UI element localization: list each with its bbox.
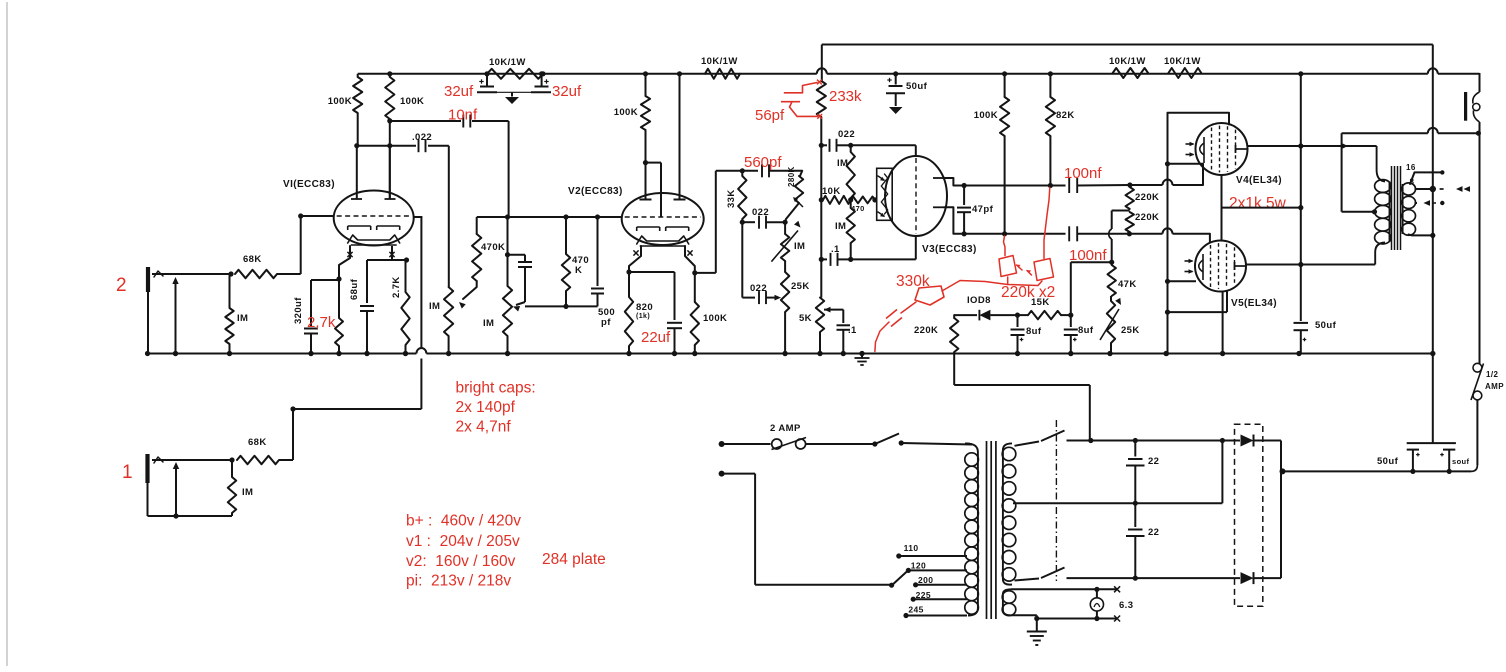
svg-text:5K: 5K <box>799 313 812 324</box>
capacitor .022 (treble-mid) <box>742 207 787 229</box>
V4 grid loop <box>1168 113 1230 164</box>
wire bright-cap node <box>525 304 598 309</box>
resistor 100K (V3 plate) <box>974 71 1010 236</box>
resistor 1M (ch2 input) <box>225 274 248 356</box>
svg-text:560pf: 560pf <box>744 154 782 171</box>
resistor 470K (2nd) <box>562 217 589 306</box>
capacitor 320uf (cathode) <box>293 280 339 356</box>
label 2 (red) <box>116 275 127 296</box>
resistor 100K (V1 plate b) <box>385 71 424 199</box>
speaker jack <box>1466 73 1480 364</box>
wire cathode column <box>1164 164 1170 356</box>
V5 plate line <box>1246 262 1375 267</box>
resistor 820 (1k) cathode <box>625 272 653 356</box>
ground at 32uf <box>497 92 531 104</box>
svg-text:33K: 33K <box>726 189 737 208</box>
svg-text:68K: 68K <box>243 254 262 265</box>
V1 plate pin b <box>385 146 396 199</box>
OT bottom tap <box>1409 233 1436 238</box>
tube V1 ECC83 <box>283 179 414 246</box>
svg-text:022: 022 <box>838 129 855 140</box>
capacitor 47pf <box>957 183 994 237</box>
svg-text:8uf: 8uf <box>1078 325 1094 336</box>
svg-text:.1: .1 <box>831 244 840 255</box>
wire to V3 grid <box>851 145 916 157</box>
svg-text:2: 2 <box>116 275 127 296</box>
svg-text:56pf: 56pf <box>755 107 785 124</box>
V2 plate pin b (to B+) <box>674 71 686 199</box>
svg-text:22: 22 <box>1148 527 1159 538</box>
svg-text:820: 820 <box>636 302 653 313</box>
B+ bus (upper rail) <box>358 68 1480 74</box>
label 2x1k 5w (red) <box>1229 195 1287 212</box>
V3 plate pin lower <box>933 207 964 234</box>
wire 68K to V1 grid <box>277 213 334 274</box>
svg-text:2x 4,7nf: 2x 4,7nf <box>456 419 512 436</box>
OT center tap <box>1342 133 1378 214</box>
OT secondary <box>1402 183 1416 235</box>
svg-text:.1: .1 <box>848 325 857 336</box>
input jack 1 <box>148 454 233 516</box>
capacitor 50uf+50uf HT <box>1377 443 1470 474</box>
capacitor 100nf lower <box>1069 226 1110 241</box>
resistor 470 (PI) <box>851 197 878 214</box>
diode 1008 <box>954 295 1017 320</box>
HT lead upper + switch <box>1015 431 1241 446</box>
wire fuse to caps <box>1471 400 1477 472</box>
capacitor 56pf mod (red sketch) <box>781 80 822 119</box>
svg-text:50uf: 50uf <box>906 81 928 92</box>
jack 2 ground arrow <box>172 277 178 356</box>
svg-text:022: 022 <box>750 283 767 294</box>
wire V3 cathode <box>851 236 916 259</box>
resistor 82K (V3 plate) <box>1046 71 1075 185</box>
svg-text:220K: 220K <box>914 325 938 336</box>
label 10nf (red) <box>448 107 478 124</box>
resistor 68K (ch2 grid stopper) <box>235 254 277 278</box>
label 32uf right (red) <box>552 83 582 100</box>
capacitor 22 (upper) <box>1126 441 1159 504</box>
6.3 lead upper <box>1011 586 1120 592</box>
V2 grid b feed <box>646 163 662 217</box>
scan edge artifact <box>6 2 8 666</box>
PT HT winding <box>1002 443 1016 584</box>
sketch wire 330k to cap (red) <box>901 302 916 313</box>
svg-text:470: 470 <box>851 204 865 213</box>
6.3 lead lower <box>1011 600 1133 622</box>
resistor 220K (V4 grid) <box>1126 185 1160 209</box>
resistor 100K (V1 plate a) <box>328 74 363 146</box>
svg-text:200: 200 <box>918 575 933 585</box>
resistor 1M (2nd) <box>483 217 512 356</box>
resistor 5K pot <box>799 298 824 357</box>
svg-text:10K/1W: 10K/1W <box>701 56 738 67</box>
svg-text:IOD8: IOD8 <box>967 295 991 306</box>
svg-text:2,7k: 2,7k <box>307 314 336 331</box>
wire 5K wiper <box>824 307 843 323</box>
svg-text:220K: 220K <box>1135 192 1159 203</box>
resistor 10K/1W (screen a) <box>1109 56 1148 78</box>
resistor 25K pot (bass) <box>781 261 810 356</box>
note bright caps (red) <box>456 380 536 436</box>
wire rectifier out <box>1280 441 1286 579</box>
svg-text:47pf: 47pf <box>972 204 994 215</box>
capacitor 500pf <box>591 217 615 328</box>
capacitor 22uf <box>629 272 682 356</box>
sketch 330k pot (red) <box>896 273 944 305</box>
svg-text:50uf: 50uf <box>1377 456 1399 467</box>
ground bus (lower rail) <box>148 348 1433 354</box>
V2 cathode lead a <box>626 246 641 275</box>
V2 cathode lead b <box>685 246 697 276</box>
resistor 220K (V5 grid) <box>1126 212 1160 234</box>
wire 68K ch1 to V1 grid2 <box>279 217 422 460</box>
svg-text:25K: 25K <box>1121 325 1140 336</box>
capacitor .1 (5K) <box>837 325 858 356</box>
svg-text:100K: 100K <box>400 96 424 107</box>
V3 plate pin upper <box>933 178 964 186</box>
resistor 47K <box>1108 262 1137 296</box>
wire V3 plate upper bus <box>964 183 1065 188</box>
wire CF to tone <box>716 170 758 172</box>
svg-text:2x 140pf: 2x 140pf <box>456 399 516 416</box>
svg-text:82K: 82K <box>1056 110 1075 121</box>
svg-text:470K: 470K <box>481 242 505 253</box>
svg-text:1: 1 <box>122 462 133 483</box>
wire V5 cathode to rail <box>1220 291 1225 356</box>
wire 233k column <box>820 145 822 297</box>
wire NFB corner <box>821 45 823 82</box>
svg-text:10K/1W: 10K/1W <box>489 57 526 68</box>
svg-text:330k: 330k <box>896 273 930 290</box>
svg-text:VI(ECC83): VI(ECC83) <box>283 179 335 190</box>
OT primary <box>1375 146 1391 265</box>
tube V4 EL34 <box>1186 123 1283 186</box>
capacitor 22 (lower) <box>1126 503 1159 581</box>
wire B+ out <box>1283 470 1472 472</box>
capacitor 8uf (bias a) <box>1011 315 1042 356</box>
svg-text:32uf: 32uf <box>552 83 582 100</box>
diode lower <box>1241 572 1282 584</box>
capacitor .022 (PI input) <box>821 129 855 152</box>
svg-text:47K: 47K <box>1118 279 1137 290</box>
svg-text:IM: IM <box>835 221 846 232</box>
svg-text:10nf: 10nf <box>448 107 478 124</box>
svg-text:100K: 100K <box>703 313 727 324</box>
resistor 15K <box>1018 297 1074 319</box>
svg-text:32uf: 32uf <box>444 83 474 100</box>
label 56pf (red) <box>755 107 785 124</box>
svg-text:320uf: 320uf <box>293 297 304 324</box>
resistor 100K (V2 plate) <box>614 71 652 199</box>
jack 1 ground arrow <box>173 462 179 519</box>
resistor 220K (bias) <box>914 315 958 385</box>
label 233k (red) <box>829 88 862 105</box>
PT core <box>987 441 996 619</box>
svg-text:v1 : 204v / 205v: v1 : 204v / 205v <box>406 533 520 550</box>
resistor 10K/1W (B+ dropper 2) <box>701 56 740 79</box>
resistor 470K <box>459 217 505 309</box>
svg-text:22uf: 22uf <box>641 329 671 346</box>
sketch cap (red) <box>875 310 902 352</box>
capacitor 100nf upper <box>1069 178 1132 193</box>
capacitor .022 (bass) <box>742 283 781 304</box>
svg-text:100K: 100K <box>614 107 638 118</box>
svg-text:V5(EL34): V5(EL34) <box>1231 298 1277 309</box>
wire jack1 bottom <box>148 515 233 517</box>
wire V5 cathode <box>1168 291 1228 312</box>
svg-text:10K/1W: 10K/1W <box>1164 56 1201 67</box>
fuse 2 AMP <box>770 423 806 450</box>
resistor 25K pot (bias) <box>1100 296 1140 356</box>
ground rail junctions <box>145 351 1436 356</box>
capacitor 68uf (cathode 2) <box>349 257 409 356</box>
svg-text:022: 022 <box>752 207 769 218</box>
node V1 cathode a <box>336 276 341 281</box>
B+ to OT line <box>1342 128 1481 136</box>
svg-text:1/2: 1/2 <box>1486 370 1498 379</box>
svg-text:10K: 10K <box>822 186 841 197</box>
capacitor 8uf (bias b) <box>1064 315 1094 356</box>
resistor 1M (PI grid) <box>837 145 855 202</box>
NFB bus (top rail) <box>822 44 1433 46</box>
wire V4 screen tie <box>1222 176 1301 241</box>
node tone input <box>740 168 745 173</box>
svg-text:120: 120 <box>911 561 926 571</box>
diode upper <box>1241 435 1282 447</box>
resistor 10K (PI) <box>819 186 851 204</box>
svg-text:233k: 233k <box>829 88 862 105</box>
resistor 10K/1W (screen b) <box>1164 56 1201 78</box>
svg-text:K: K <box>575 265 582 276</box>
capacitor 50uf (cathode) <box>1294 71 1337 356</box>
svg-text:IM: IM <box>483 318 494 329</box>
resistor 1M pot (mid) <box>771 221 805 262</box>
svg-text:25K: 25K <box>791 281 810 292</box>
node PI input <box>819 143 824 148</box>
svg-text:pi: 213v / 218v: pi: 213v / 218v <box>406 573 511 590</box>
node jack1 <box>229 457 234 462</box>
PT 6.3V winding <box>1002 589 1016 615</box>
diode box <box>1235 424 1263 606</box>
capacitor 50uf (screen node) <box>886 71 928 114</box>
label 1 (red) <box>122 462 133 483</box>
svg-text:pf: pf <box>601 317 611 328</box>
svg-text:16: 16 <box>1406 163 1416 172</box>
svg-text:(1k): (1k) <box>636 313 650 320</box>
resistor 1M pot (left) <box>429 287 453 356</box>
resistor 2.7K (cathode 2) <box>391 260 410 356</box>
svg-text:IM: IM <box>242 487 253 498</box>
svg-text:IM: IM <box>429 301 440 312</box>
svg-text:bright caps:: bright caps: <box>456 380 536 397</box>
OT core <box>1392 166 1401 250</box>
resistor 233k feedback <box>817 81 826 145</box>
sketch box1 (red) <box>999 236 1022 277</box>
label 22uf (red) <box>641 329 671 346</box>
ground (main rail) <box>855 351 870 365</box>
svg-text:IM: IM <box>837 158 848 169</box>
svg-text:souf: souf <box>1452 457 1470 466</box>
svg-text:50uf: 50uf <box>1315 320 1337 331</box>
V1 cathode lead b <box>389 246 394 260</box>
switch linkage <box>1055 420 1057 581</box>
tube V3 ECC83 <box>885 156 977 255</box>
node bias a <box>1015 313 1020 318</box>
svg-text:b+ : 460v / 420v: b+ : 460v / 420v <box>406 513 521 530</box>
svg-text:8uf: 8uf <box>1026 326 1042 337</box>
wire bias feed <box>1071 262 1112 315</box>
mains terminal N <box>719 471 892 585</box>
wire V5 heater <box>1168 280 1197 282</box>
svg-text:280K: 280K <box>787 166 796 187</box>
V3 grid box <box>875 168 892 220</box>
label 220k x2 (red) <box>1001 284 1055 301</box>
mains terminal L <box>719 441 771 447</box>
svg-text:v2: 160v / 160v: v2: 160v / 160v <box>406 553 516 570</box>
bright capacitor on 1M <box>508 255 533 312</box>
NFB takeoff column <box>1430 45 1435 444</box>
svg-text:V2(ECC83): V2(ECC83) <box>568 186 623 197</box>
tube V5 EL34 <box>1185 241 1278 310</box>
fuse 1/2 AMP <box>1471 363 1504 400</box>
voltage selector arm <box>889 570 909 588</box>
V1 cathode lead a <box>339 246 353 279</box>
svg-text:V3(ECC83): V3(ECC83) <box>922 244 977 255</box>
svg-text:68K: 68K <box>248 437 267 448</box>
wire CF output <box>695 171 716 273</box>
svg-text:IM: IM <box>794 241 805 252</box>
label 100nf upper (red) <box>1064 165 1102 182</box>
capacitor 32uf (left) <box>477 71 497 92</box>
svg-text:.022: .022 <box>412 132 432 143</box>
capacitor 32uf (right) <box>531 71 551 92</box>
svg-text:2.7K: 2.7K <box>391 276 402 298</box>
OT 4 tap <box>1415 200 1445 206</box>
svg-text:220k x2: 220k x2 <box>1001 284 1055 301</box>
svg-text:100K: 100K <box>328 96 352 107</box>
resistor 2.7k (red-noted cathode) <box>335 279 343 356</box>
capacitor 560pf <box>762 164 802 177</box>
resistor 1M (ch1 input) <box>228 460 254 516</box>
svg-text:100nf: 100nf <box>1064 165 1102 182</box>
svg-text:2 AMP: 2 AMP <box>770 423 801 434</box>
svg-text:22: 22 <box>1148 456 1159 467</box>
wire bias from PT <box>954 385 1090 441</box>
resistor 10K/1W (B+ dropper 1) <box>487 57 546 79</box>
note 284 plate (red) <box>542 551 606 568</box>
node jack2 <box>228 271 233 276</box>
svg-text:AMP: AMP <box>1485 382 1504 391</box>
svg-text:IM: IM <box>237 313 248 324</box>
sketch box2 (red) <box>1027 188 1054 281</box>
tube V2 ECC83 <box>568 186 704 246</box>
V4 plate line <box>1248 143 1377 149</box>
mains switch <box>806 434 972 447</box>
label 100nf lower (red) <box>1069 247 1107 264</box>
HT lead mid (center tap) <box>1013 438 1225 506</box>
grid line V5 <box>1110 228 1210 242</box>
input jack 2 <box>148 267 231 354</box>
resistor 100K (V2 cathode follower) <box>691 273 728 356</box>
svg-text:284 plate: 284 plate <box>542 551 606 568</box>
capacitor 10nf feedback <box>390 115 509 218</box>
V1 plate pin a <box>351 146 362 199</box>
OT 16 tap <box>1406 163 1445 184</box>
svg-text:V4(EL34): V4(EL34) <box>1236 175 1282 186</box>
svg-text:110: 110 <box>904 543 919 553</box>
PT primary winding <box>965 443 979 615</box>
capacitor .022 (V1a coupling) <box>354 132 449 287</box>
svg-text:220K: 220K <box>1135 212 1159 223</box>
grid bus to V2 <box>477 214 622 219</box>
resistor 68K (ch1 grid stopper) <box>237 437 279 464</box>
svg-text:245: 245 <box>908 605 923 615</box>
sketch wire to boxes (red) <box>942 277 1042 291</box>
wire V3 plate lower bus <box>964 233 1065 235</box>
label 32uf left (red) <box>444 83 474 100</box>
svg-text:68uf: 68uf <box>349 278 360 300</box>
HT lead lower + switch <box>1015 568 1241 581</box>
note voltages (red) <box>406 513 521 590</box>
node V1 plate b / 10nf <box>387 118 392 123</box>
svg-text:100K: 100K <box>974 110 998 121</box>
grid line V4 <box>1130 161 1203 185</box>
pilot lamp <box>1090 589 1103 618</box>
svg-text:10K/1W: 10K/1W <box>1109 56 1146 67</box>
wire bias to grids <box>1109 211 1130 265</box>
label 560pf (red) <box>744 154 782 171</box>
label 2,7k (red) <box>307 314 336 331</box>
capacitor .1 (PI tail) <box>819 244 851 266</box>
PT primary taps 110-245 <box>896 543 967 618</box>
resistor 280K pot <box>785 166 803 222</box>
OT 8 tap <box>1410 178 1471 193</box>
ground PT <box>1027 615 1047 645</box>
resistor 1M (PI 2nd) <box>835 200 855 262</box>
resistor 33K <box>726 171 747 298</box>
svg-text:8: 8 <box>1410 178 1415 187</box>
svg-text:6.3: 6.3 <box>1119 600 1133 611</box>
svg-text:2x1k 5w: 2x1k 5w <box>1229 195 1287 212</box>
svg-text:225: 225 <box>916 590 931 600</box>
